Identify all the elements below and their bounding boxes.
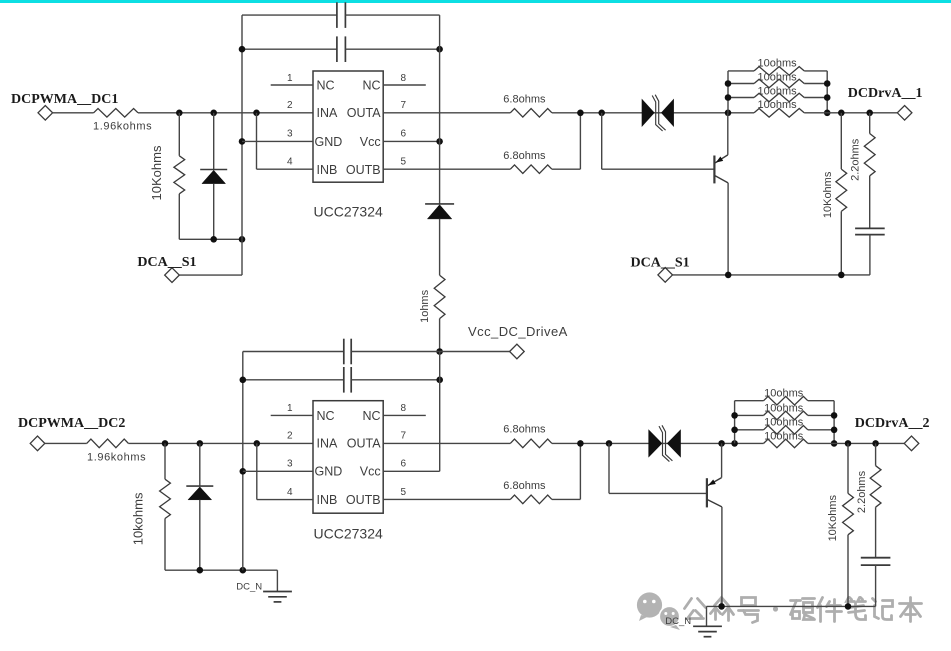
node ladder left main (bottom) — [731, 440, 738, 447]
wire ladder right rail (bottom) — [833, 401, 835, 444]
node input junction D4 — [197, 440, 204, 447]
wire input DC2 — [45, 442, 87, 444]
node ladder left row2 (bottom) — [731, 412, 738, 419]
resistor R10 2.2ohms (right top) — [869, 113, 871, 134]
node ladder right row3 — [824, 94, 831, 101]
node ladder right row2 — [824, 80, 831, 87]
node rail D1 bottom — [210, 236, 217, 243]
node Q1 emitter rail — [725, 272, 732, 279]
svg-text:10ohms: 10ohms — [764, 387, 804, 399]
resistor R20 10Kohms (right bottom) — [847, 443, 849, 493]
diode D5 TVS bidirectional (bottom) — [648, 429, 662, 457]
resistor R12 1.96kohms (bottom) — [87, 439, 129, 448]
resistor R13 10kohms (bottom pulldown) — [164, 443, 166, 479]
diode D3 (Vcc series, top) — [425, 203, 454, 205]
node C4 right — [436, 377, 443, 384]
node ladder left main — [725, 110, 732, 117]
resistor R2 10Kohms (top pulldown) — [178, 113, 180, 156]
wire Vcc rail above diode — [439, 15, 441, 204]
svg-text:GND: GND — [315, 465, 343, 479]
svg-text:DCDrvA__2: DCDrvA__2 — [855, 416, 930, 431]
svg-text:DCA__S1: DCA__S1 — [631, 255, 690, 270]
svg-text:DC_N: DC_N — [665, 616, 691, 627]
svg-text:OUTB: OUTB — [346, 163, 381, 177]
svg-text:OUTB: OUTB — [346, 493, 381, 507]
wire OUTA from U2 — [383, 442, 510, 444]
svg-text:10Kohms: 10Kohms — [149, 145, 164, 200]
capacitor C1 (top bypass) — [242, 14, 337, 16]
svg-text:5: 5 — [401, 487, 407, 498]
pin 3 GND wire U1 — [242, 140, 313, 142]
ground DC_N (left) — [263, 591, 292, 593]
svg-text:10kohms: 10kohms — [131, 492, 146, 545]
capacitor C6 (snubber bottom) — [861, 557, 891, 559]
wire rail to ground DC_N (right) — [706, 606, 708, 626]
wire rail down to DCA_S1 — [241, 239, 243, 275]
svg-text:DCA__S1: DCA__S1 — [137, 255, 196, 270]
wire left cap rail — [241, 15, 243, 239]
resistor R5 10ohms row1 — [728, 70, 754, 72]
svg-text:10Kohms: 10Kohms — [822, 171, 834, 218]
resistor R14 6.8ohms (OUTA bottom) — [510, 439, 552, 448]
svg-text:NC: NC — [363, 409, 381, 423]
svg-text:DCDrvA__1: DCDrvA__1 — [848, 86, 923, 101]
pin 6 Vcc wire U2 — [383, 470, 440, 472]
port DCA__S1 (left) — [165, 268, 180, 283]
svg-text:GND: GND — [315, 135, 343, 149]
node Q2 emitter rail — [718, 603, 725, 610]
svg-text:INB: INB — [317, 163, 338, 177]
svg-text:NC: NC — [317, 409, 335, 423]
svg-text:3: 3 — [287, 129, 293, 140]
node Vcc_DC_DriveA — [436, 348, 443, 355]
node 10Kohms top (right) — [838, 110, 845, 117]
wire bottom rail top-left — [179, 238, 242, 240]
node ladder left row3 — [725, 94, 732, 101]
svg-text:INB: INB — [317, 493, 338, 507]
svg-text:Vcc: Vcc — [360, 465, 381, 479]
svg-text:10Kohms: 10Kohms — [827, 494, 839, 541]
wire OUTA from U1 — [383, 112, 510, 114]
svg-text:5: 5 — [401, 157, 407, 168]
svg-text:10ohms: 10ohms — [758, 72, 798, 84]
wire Vcc node to port — [440, 351, 510, 353]
diode D1 (top input clamp) — [213, 113, 215, 170]
node GND rail junction (bottom) — [240, 468, 247, 475]
svg-text:UCC27324: UCC27324 — [314, 204, 383, 220]
port DCPWMA__DC1 — [38, 106, 53, 121]
wire ladder left rail (top) — [727, 71, 729, 113]
transistor Q1 (top PNP) — [713, 156, 715, 184]
node rail corner DCA_S1 — [239, 236, 246, 243]
resistor R11 1ohms — [434, 275, 445, 318]
wire Vcc rail bottom IC — [439, 352, 441, 472]
svg-text:Vcc_DC_DriveA: Vcc_DC_DriveA — [468, 324, 568, 339]
node C4 left — [240, 377, 247, 384]
svg-text:INA: INA — [317, 437, 339, 451]
resistor R18 10ohms row3 (bottom) — [735, 429, 764, 431]
svg-text:OUTA: OUTA — [347, 437, 381, 451]
node C2 right — [436, 46, 443, 53]
op-amp U1 UCC27324 (top driver) — [313, 71, 383, 182]
node 10Kohms bottom rail (bottom) — [845, 603, 852, 610]
wire DCA_S1 rail (right top) — [673, 274, 870, 276]
svg-text:4: 4 — [287, 487, 293, 498]
node 10Kohms top (right bottom) — [845, 440, 852, 447]
svg-text:10ohms: 10ohms — [758, 99, 798, 111]
svg-text:2: 2 — [287, 431, 293, 442]
diode D4 (bottom input clamp) — [199, 443, 201, 486]
pin 6 Vcc wire U1 — [383, 140, 439, 142]
resistor R7 10ohms row3 — [728, 97, 754, 99]
node base branch — [598, 110, 605, 117]
resistor R19 10ohms row4 (bottom) — [764, 439, 808, 448]
node ladder right row3 (bottom) — [831, 427, 838, 434]
svg-text:3: 3 — [287, 459, 293, 470]
node ladder right row2 (bottom) — [831, 412, 838, 419]
resistor R16 10ohms row1 (bottom) — [735, 400, 764, 402]
node input junction INB tie (bottom) — [253, 440, 260, 447]
svg-text:8: 8 — [401, 403, 407, 414]
transistor Q2 (bottom PNP) — [706, 478, 708, 507]
node Q2 collector top — [718, 440, 725, 447]
svg-text:1ohms: 1ohms — [419, 289, 431, 323]
diode D2 TVS bidirectional (top) — [642, 99, 655, 127]
resistor R15 6.8ohms (OUTB bottom) — [510, 495, 552, 504]
node Vcc rail junction — [436, 138, 443, 145]
ground DC_N (right) — [693, 625, 722, 627]
port DCDrvA__1 — [897, 106, 912, 121]
svg-text:10ohms: 10ohms — [758, 85, 798, 97]
wire rail to ground DC_N (left) — [276, 570, 278, 591]
svg-text:10ohms: 10ohms — [764, 417, 804, 429]
svg-text:6.8ohms: 6.8ohms — [503, 423, 546, 435]
node ladder right main — [824, 110, 831, 117]
node 2.2ohms top (right) — [866, 110, 873, 117]
pin 4 INB tie wire U2 — [256, 443, 258, 499]
wire 1ohms to Vcc node — [439, 319, 441, 352]
node ladder left row3 (bottom) — [731, 427, 738, 434]
pin 3 GND wire U2 — [243, 470, 313, 472]
svg-text:NC: NC — [317, 79, 335, 93]
wire OUTB from U1 — [383, 168, 510, 170]
pin 1 stub U2 — [271, 414, 313, 416]
svg-text:6.8ohms: 6.8ohms — [503, 150, 546, 162]
node rail D4 bottom — [197, 567, 204, 574]
pin 1 stub U1 — [271, 84, 313, 86]
wire ladder right rail (top) — [826, 71, 828, 113]
node input junction R13 — [162, 440, 169, 447]
capacitor C4 (bottom second bypass) — [243, 379, 344, 381]
wire diode to 1ohms — [439, 219, 441, 275]
svg-text:OUTA: OUTA — [347, 106, 381, 120]
port DCDrvA__2 — [904, 436, 919, 451]
resistor R8 10ohms row4 — [754, 109, 804, 118]
node ladder right main (bottom) — [831, 440, 838, 447]
svg-text:2.2ohms: 2.2ohms — [856, 470, 868, 513]
svg-text:DCPWMA__DC2: DCPWMA__DC2 — [18, 416, 125, 431]
wire left cap rail (bottom) — [242, 352, 244, 571]
wire ladder to output (bottom) — [808, 442, 904, 444]
wire input DC1 — [53, 112, 94, 114]
svg-text:Vcc: Vcc — [360, 135, 381, 149]
node rail cap junction (bottom) — [240, 567, 247, 574]
port DCPWMA__DC2 — [30, 436, 45, 451]
wire input DC2 to INA — [128, 442, 313, 444]
node input junction R2 top — [176, 110, 183, 117]
svg-text:INA: INA — [317, 106, 339, 120]
svg-text:2.2ohms: 2.2ohms — [850, 138, 862, 181]
svg-text:10ohms: 10ohms — [758, 58, 798, 70]
wire OUTB from U2 — [383, 498, 510, 500]
capacitor C3 (bottom bypass) — [243, 351, 344, 353]
svg-text:6.8ohms: 6.8ohms — [503, 93, 546, 105]
resistor R21 2.2ohms (right bottom) — [875, 443, 877, 465]
wire input DC1 to INA — [138, 112, 313, 114]
resistor R3 6.8ohms (OUTA) — [510, 109, 552, 118]
svg-text:7: 7 — [401, 100, 407, 111]
capacitor C5 (snubber top) — [855, 227, 885, 229]
port Vcc_DC_DriveA — [510, 344, 525, 359]
wire base branch down (bottom) — [608, 443, 610, 493]
svg-text:1: 1 — [287, 73, 293, 84]
wire ground rail (right bottom) — [707, 605, 876, 607]
svg-text:6: 6 — [401, 129, 407, 140]
node base branch (bottom) — [606, 440, 613, 447]
svg-text:8: 8 — [401, 73, 407, 84]
svg-text:NC: NC — [363, 79, 381, 93]
wire ladder to output — [804, 112, 897, 114]
node OUTB merge — [577, 110, 584, 117]
svg-text:7: 7 — [401, 431, 407, 442]
node OUTB merge (bottom) — [577, 440, 584, 447]
node C2 left — [239, 46, 246, 53]
op-amp U2 UCC27324 (bottom driver) — [313, 401, 383, 514]
resistor R17 10ohms row2 (bottom) — [735, 414, 764, 416]
svg-text:4: 4 — [287, 157, 293, 168]
node input junction D1 — [210, 110, 217, 117]
wire OUTA to merge — [552, 112, 754, 114]
svg-text:10ohms: 10ohms — [764, 403, 804, 415]
pin 8 stub U1 — [383, 84, 426, 86]
wire ladder left rail (bottom) — [734, 401, 736, 444]
resistor R4 6.8ohms (OUTB) — [510, 165, 552, 174]
svg-text:1.96kohms: 1.96kohms — [93, 121, 152, 133]
wire OUTB to merge — [552, 168, 581, 170]
wire bottom rail bottom-left — [165, 569, 277, 571]
svg-text:10ohms: 10ohms — [764, 430, 804, 442]
pin 4 INB tie wire U1 — [256, 113, 258, 169]
resistor R9 10Kohms (right top) — [840, 113, 842, 169]
svg-text:DCPWMA__DC1: DCPWMA__DC1 — [11, 92, 118, 107]
svg-text:DC_N: DC_N — [236, 582, 262, 593]
node 10Kohms bottom rail — [838, 272, 845, 279]
svg-text:1.96kohms: 1.96kohms — [87, 452, 146, 464]
wire OUTA to merge (bottom) — [552, 442, 764, 444]
pin 8 stub U2 — [383, 414, 426, 416]
svg-text:6: 6 — [401, 459, 407, 470]
port DCA__S1 (right) — [658, 268, 673, 283]
node input junction INB tie — [253, 110, 260, 117]
resistor R 1.96kohms (top) — [94, 109, 138, 118]
capacitor C2 (second bypass) — [242, 48, 337, 50]
wire top border highlight — [0, 0, 951, 3]
node ladder left row2 — [725, 80, 732, 87]
svg-text:6.8ohms: 6.8ohms — [503, 480, 546, 492]
svg-text:2: 2 — [287, 100, 293, 111]
wire OUTB to merge (bottom) — [552, 498, 581, 500]
resistor R6 10ohms row2 — [728, 83, 754, 85]
svg-text:UCC27324: UCC27324 — [314, 526, 383, 542]
wire base branch down — [601, 113, 603, 169]
svg-text:1: 1 — [287, 403, 293, 414]
node 2.2ohms top (right bottom) — [872, 440, 879, 447]
node GND rail junction — [239, 138, 246, 145]
